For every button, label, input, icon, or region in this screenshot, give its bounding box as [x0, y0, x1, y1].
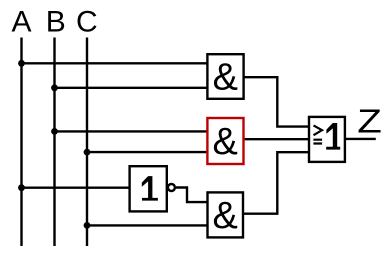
node C junction dot [84, 149, 91, 156]
OR gate U5 label 1 [326, 123, 340, 150]
wire B to U2 pin 1 [55, 130, 208, 132]
wire A to U4 input [22, 186, 130, 188]
wire U3 output to U5 pin 3 [243, 152, 309, 214]
inverter U4 output bubble [168, 184, 175, 191]
AND gate U3 box [208, 192, 244, 237]
wire A to U1 pin 1 [22, 62, 208, 64]
svg-text:C: C [76, 6, 98, 39]
node B junction dot [51, 84, 58, 91]
wire U5 output to Z [345, 138, 376, 140]
wire U4 output to U3 pin 1 [176, 188, 208, 203]
wire U1 output to U5 pin 1 [244, 77, 309, 126]
wire C to U3 pin 2 [87, 224, 208, 226]
AND gate U1 box [207, 54, 243, 99]
node C junction dot 2 [84, 222, 91, 229]
inverter U4 box [130, 166, 167, 211]
node B junction dot 2 [51, 128, 58, 135]
svg-text:Z: Z [357, 103, 382, 140]
svg-text:&: & [213, 195, 238, 237]
net C vertical wire [86, 38, 88, 247]
svg-text:B: B [46, 6, 66, 39]
svg-text:&: & [213, 121, 238, 163]
node A junction dot [18, 60, 25, 67]
wire B to U1 pin 2 [55, 87, 208, 89]
wire U2 output to U5 pin 2 [244, 138, 310, 140]
wire C to U2 pin 2 [87, 151, 207, 153]
svg-text:A: A [11, 6, 31, 39]
OR gate U5 label equal bars [313, 140, 322, 144]
AND gate U2 box (red highlighted) [207, 118, 243, 164]
OR gate U5 box [309, 117, 345, 162]
inverter U4 label 1 [142, 176, 158, 201]
net B vertical wire [53, 38, 55, 247]
OR gate U5 label greater-equal chevron [314, 125, 323, 135]
svg-text:&: & [213, 57, 238, 99]
node A junction dot 2 [18, 184, 25, 191]
net A vertical wire [20, 38, 22, 247]
